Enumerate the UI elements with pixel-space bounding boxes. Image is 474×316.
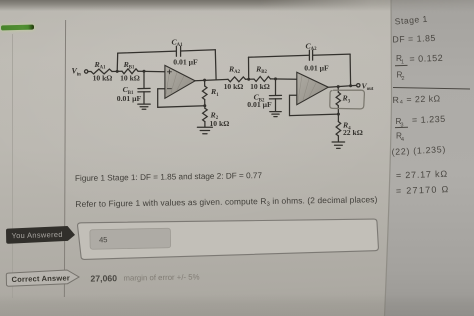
svg-text:= 27.17 kΩ: = 27.17 kΩ	[396, 169, 448, 181]
svg-text:Correct Answer: Correct Answer	[11, 273, 70, 284]
svg-text:DF = 1.85: DF = 1.85	[392, 33, 436, 45]
svg-text:R₄ = 22 kΩ: R₄ = 22 kΩ	[392, 93, 441, 105]
svg-text:10 kΩ: 10 kΩ	[120, 74, 140, 83]
svg-text:RA1: RA1	[93, 60, 106, 71]
svg-text:CA1: CA1	[171, 37, 183, 48]
svg-text:10 kΩ: 10 kΩ	[250, 82, 270, 91]
svg-text:45: 45	[99, 235, 108, 244]
svg-text:4: 4	[401, 137, 404, 143]
svg-text:10 kΩ: 10 kΩ	[224, 82, 244, 91]
svg-text:0.01 μF: 0.01 μF	[117, 94, 142, 103]
svg-text:0.01 μF: 0.01 μF	[173, 57, 198, 66]
svg-text:2: 2	[402, 76, 405, 82]
svg-text:0.01 μF: 0.01 μF	[247, 100, 272, 109]
svg-text:RB2: RB2	[255, 64, 267, 75]
svg-text:R3: R3	[342, 94, 351, 105]
svg-text:22 kΩ: 22 kΩ	[343, 128, 363, 137]
svg-text:= 27170 Ω: = 27170 Ω	[396, 184, 450, 196]
svg-text:RA2: RA2	[228, 64, 241, 75]
svg-text:1: 1	[401, 60, 404, 66]
svg-text:0.01 μF: 0.01 μF	[304, 63, 329, 72]
svg-text:= 0.152: = 0.152	[409, 53, 443, 64]
svg-text:10 kΩ: 10 kΩ	[93, 74, 113, 83]
svg-text:R1: R1	[210, 87, 219, 98]
svg-text:27,060: 27,060	[90, 273, 117, 283]
svg-text:Vin: Vin	[72, 67, 82, 78]
svg-text:RB1: RB1	[123, 60, 135, 71]
svg-text:Figure 1 Stage 1: DF = 1.85 an: Figure 1 Stage 1: DF = 1.85 and stage 2:…	[75, 171, 263, 183]
svg-text:10 kΩ: 10 kΩ	[210, 119, 230, 128]
svg-text:Refer to Figure 1 with values: Refer to Figure 1 with values as given. …	[75, 194, 377, 210]
svg-text:margin of error +/- 5%: margin of error +/- 5%	[123, 272, 199, 282]
svg-text:CA2: CA2	[305, 41, 317, 52]
svg-text:You Answered: You Answered	[11, 230, 63, 240]
svg-text:= 1.235: = 1.235	[412, 114, 446, 125]
